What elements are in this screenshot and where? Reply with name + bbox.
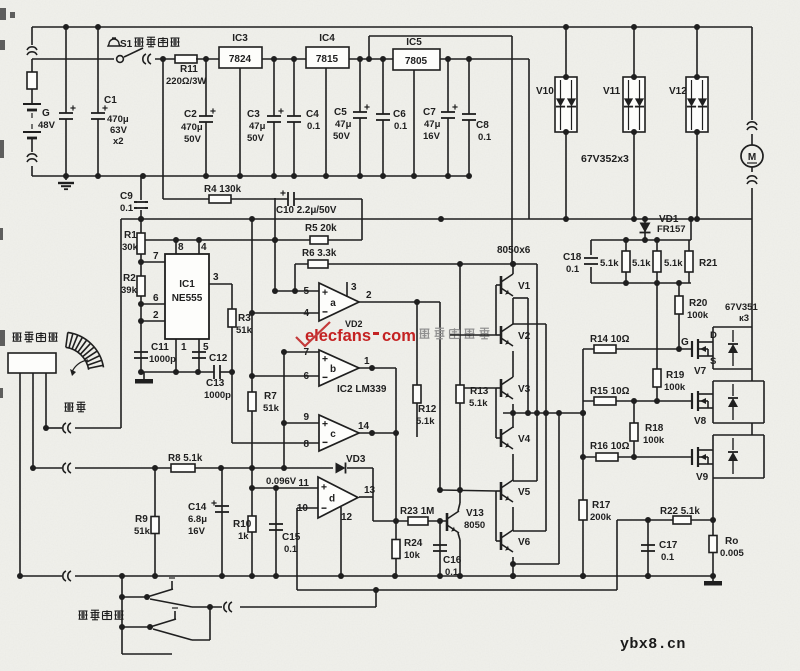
svg-text:0.005: 0.005 — [720, 548, 744, 559]
svg-text:50V: 50V — [333, 131, 351, 142]
svg-text:C9: C9 — [120, 191, 133, 202]
svg-text:16V: 16V — [188, 526, 206, 537]
svg-text:V1: V1 — [518, 281, 531, 292]
svg-text:C15: C15 — [282, 532, 301, 543]
svg-text:0.1: 0.1 — [120, 203, 134, 214]
svg-text:C8: C8 — [476, 120, 489, 131]
svg-text:48V: 48V — [38, 120, 56, 131]
svg-text:1000p: 1000p — [149, 354, 176, 365]
svg-text:100k: 100k — [664, 382, 686, 393]
svg-text:G: G — [42, 108, 50, 119]
svg-text:R9: R9 — [135, 514, 148, 525]
svg-text:1000p: 1000p — [204, 390, 231, 401]
svg-text:R3: R3 — [238, 313, 251, 324]
svg-text:V11: V11 — [603, 86, 621, 97]
svg-text:IC2 LM339: IC2 LM339 — [337, 384, 387, 395]
svg-text:R11: R11 — [180, 64, 198, 75]
svg-text:8: 8 — [178, 242, 184, 253]
svg-text:IC4: IC4 — [319, 33, 335, 44]
svg-text:0.1: 0.1 — [284, 544, 298, 555]
svg-text:7: 7 — [303, 347, 309, 358]
svg-text:C7: C7 — [423, 107, 436, 118]
svg-text:x2: x2 — [113, 136, 124, 147]
svg-text:R4 130k: R4 130k — [204, 184, 242, 195]
svg-text:R16 10Ω: R16 10Ω — [590, 441, 630, 452]
svg-text:V12: V12 — [669, 86, 687, 97]
svg-text:0.1: 0.1 — [661, 552, 675, 563]
svg-text:0.1: 0.1 — [478, 132, 492, 143]
svg-text:V8: V8 — [694, 416, 707, 427]
svg-text:FR157: FR157 — [657, 224, 686, 235]
svg-text:1k: 1k — [238, 531, 249, 542]
svg-text:0.1: 0.1 — [566, 264, 580, 275]
svg-text:R6 3.3k: R6 3.3k — [302, 248, 337, 259]
svg-text:5.1k: 5.1k — [664, 258, 683, 269]
svg-text:IC3: IC3 — [232, 33, 248, 44]
svg-text:C16: C16 — [443, 555, 462, 566]
svg-text:C3: C3 — [247, 109, 260, 120]
svg-text:C10 2.2μ/50V: C10 2.2μ/50V — [276, 205, 337, 216]
svg-text:R1: R1 — [124, 230, 137, 241]
svg-text:IC5: IC5 — [406, 37, 422, 48]
svg-text:47μ: 47μ — [249, 121, 266, 132]
svg-text:M: M — [748, 152, 756, 163]
svg-text:51k: 51k — [263, 403, 280, 414]
svg-text:IC1: IC1 — [179, 279, 195, 290]
svg-text:R2: R2 — [123, 273, 136, 284]
svg-text:3: 3 — [351, 282, 357, 293]
svg-text:C17: C17 — [659, 540, 678, 551]
svg-text:Ro: Ro — [725, 536, 738, 547]
svg-text:5.1k: 5.1k — [469, 398, 488, 409]
svg-text:1: 1 — [364, 356, 370, 367]
svg-text:C5: C5 — [334, 107, 347, 118]
svg-text:C13: C13 — [206, 378, 225, 389]
svg-text:5.1k: 5.1k — [632, 258, 651, 269]
svg-text:d: d — [329, 494, 335, 505]
svg-text:9: 9 — [303, 412, 309, 423]
svg-text:4: 4 — [201, 242, 207, 253]
svg-text:10: 10 — [297, 503, 309, 514]
svg-text:7824: 7824 — [229, 54, 252, 65]
svg-text:VD3: VD3 — [346, 454, 366, 465]
svg-text:R24: R24 — [404, 538, 423, 549]
svg-text:1: 1 — [181, 342, 187, 353]
svg-text:5.1k: 5.1k — [600, 258, 619, 269]
svg-text:C18: C18 — [563, 252, 582, 263]
svg-text:67V351: 67V351 — [725, 302, 758, 313]
svg-text:C1: C1 — [104, 95, 117, 106]
svg-text:47μ: 47μ — [424, 119, 441, 130]
svg-text:8: 8 — [303, 439, 309, 450]
svg-text:47μ: 47μ — [335, 119, 352, 130]
svg-text:7: 7 — [153, 251, 159, 262]
svg-text:470μ: 470μ — [181, 122, 203, 133]
svg-text:51k: 51k — [134, 526, 151, 537]
svg-text:0.1: 0.1 — [394, 121, 408, 132]
svg-text:30k: 30k — [122, 242, 139, 253]
svg-text:8050x6: 8050x6 — [497, 245, 531, 256]
svg-text:2: 2 — [366, 290, 372, 301]
svg-text:14: 14 — [358, 421, 370, 432]
svg-text:0.1: 0.1 — [307, 121, 321, 132]
svg-text:V6: V6 — [518, 537, 531, 548]
svg-text:R8 5.1k: R8 5.1k — [168, 453, 203, 464]
svg-text:10k: 10k — [404, 550, 421, 561]
svg-text:5: 5 — [303, 286, 309, 297]
svg-text:6: 6 — [303, 371, 309, 382]
svg-text:V7: V7 — [694, 366, 707, 377]
svg-text:ybx8.cn: ybx8.cn — [620, 636, 686, 653]
svg-text:R21: R21 — [699, 258, 718, 269]
svg-text:0.096V: 0.096V — [266, 476, 297, 487]
svg-text:R7: R7 — [264, 391, 277, 402]
svg-text:5: 5 — [203, 342, 209, 353]
svg-text:7805: 7805 — [405, 56, 428, 67]
svg-text:220Ω/3W: 220Ω/3W — [166, 76, 206, 87]
svg-text:V13: V13 — [466, 508, 484, 519]
svg-text:5.1k: 5.1k — [416, 416, 435, 427]
svg-text:50V: 50V — [184, 134, 202, 145]
svg-text:a: a — [330, 298, 336, 309]
svg-text:V5: V5 — [518, 487, 531, 498]
svg-text:C4: C4 — [306, 109, 319, 120]
svg-text:R10: R10 — [233, 519, 252, 530]
svg-text:R22 5.1k: R22 5.1k — [660, 506, 700, 517]
svg-text:4: 4 — [303, 308, 309, 319]
svg-text:R20: R20 — [689, 298, 708, 309]
svg-text:100k: 100k — [643, 435, 665, 446]
svg-text:R18: R18 — [645, 423, 664, 434]
svg-text:7815: 7815 — [316, 54, 339, 65]
svg-text:R15 10Ω: R15 10Ω — [590, 386, 630, 397]
svg-text:C12: C12 — [209, 353, 228, 364]
svg-text:63V: 63V — [110, 125, 128, 136]
svg-text:R12: R12 — [418, 404, 437, 415]
svg-text:13: 13 — [364, 485, 376, 496]
svg-text:C11: C11 — [151, 342, 169, 353]
svg-text:470μ: 470μ — [107, 114, 129, 125]
svg-text:G: G — [681, 337, 689, 348]
svg-text:к3: к3 — [739, 313, 749, 324]
svg-text:50V: 50V — [247, 133, 265, 144]
svg-text:com: com — [382, 327, 416, 345]
svg-text:C6: C6 — [393, 109, 406, 120]
svg-text:NE555: NE555 — [172, 293, 203, 304]
svg-text:C2: C2 — [184, 109, 197, 120]
svg-text:2: 2 — [153, 310, 159, 321]
svg-text:V10: V10 — [536, 86, 554, 97]
svg-text:b: b — [330, 364, 336, 375]
svg-text:100k: 100k — [687, 310, 709, 321]
svg-text:3: 3 — [213, 272, 219, 283]
svg-text:C14: C14 — [188, 502, 207, 513]
svg-text:200k: 200k — [590, 512, 612, 523]
svg-text:8050: 8050 — [464, 520, 485, 531]
svg-text:R14 10Ω: R14 10Ω — [590, 334, 630, 345]
svg-text:6: 6 — [153, 293, 159, 304]
svg-text:6.8μ: 6.8μ — [188, 514, 207, 525]
svg-text:R23 1M: R23 1M — [400, 506, 434, 517]
svg-text:67V352x3: 67V352x3 — [581, 153, 629, 165]
svg-text:16V: 16V — [423, 131, 441, 142]
svg-text:11: 11 — [298, 478, 309, 489]
svg-text:R19: R19 — [666, 370, 685, 381]
svg-text:39k: 39k — [121, 285, 138, 296]
svg-text:S1: S1 — [120, 39, 133, 50]
svg-text:R5 20k: R5 20k — [305, 223, 337, 234]
svg-text:V4: V4 — [518, 434, 531, 445]
svg-text:12: 12 — [341, 512, 353, 523]
svg-text:R17: R17 — [592, 500, 611, 511]
svg-text:c: c — [330, 429, 336, 440]
svg-text:V9: V9 — [696, 472, 709, 483]
svg-text:51k: 51k — [236, 325, 253, 336]
